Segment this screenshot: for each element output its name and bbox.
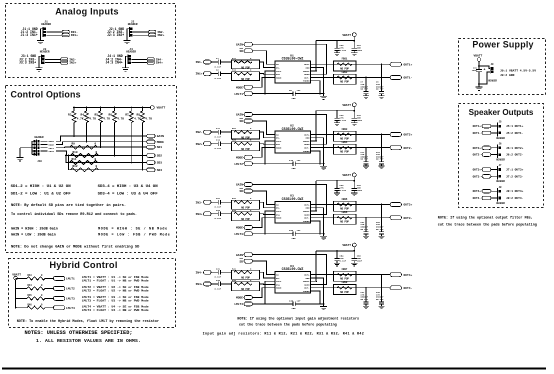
svg-text:OUT-: OUT- <box>304 76 309 79</box>
ground under C37 <box>363 306 369 309</box>
svg-text:IN+: IN+ <box>276 213 281 216</box>
svg-text:NO POP: NO POP <box>340 137 349 140</box>
svg-text:NO POP: NO POP <box>361 158 369 161</box>
svg-text:0.1uF: 0.1uF <box>215 77 222 80</box>
resistor R22 0 (NO POP box) <box>232 142 260 151</box>
svg-text:MODE: MODE <box>276 217 282 220</box>
ground under C54 <box>334 263 340 266</box>
svg-text:THERM: THERM <box>303 290 310 293</box>
svg-text:IN1+: IN1+ <box>71 34 78 37</box>
resistor R21 0 (NO POP box) <box>232 130 260 139</box>
wire R6 to SD2 net <box>114 123 116 156</box>
resistor R11 0 (NO POP box) <box>232 60 260 69</box>
svg-text:GND: GND <box>306 67 311 70</box>
svg-text:LMLT: LMLT <box>276 70 282 73</box>
wire C5 to ground <box>295 93 323 95</box>
svg-text:4.7K: 4.7K <box>103 118 110 121</box>
wire IN1- to C1 <box>211 61 218 63</box>
ground at J2 <box>123 40 130 43</box>
resistor R43 0 ohm <box>27 277 45 280</box>
wire SD2 to R12 branch <box>69 156 71 170</box>
svg-text:R21: R21 <box>232 127 237 130</box>
svg-text:SD3: SD3 <box>157 162 163 165</box>
ferrite bead FB on IN4+ <box>147 61 154 64</box>
svg-text:R7: R7 <box>125 114 129 117</box>
svg-text:VBATT: VBATT <box>342 34 351 37</box>
svg-text:Control Options: Control Options <box>11 90 81 100</box>
capacitor C34 0.1uF (decoupling) <box>336 111 338 119</box>
svg-text:cut the trace between the pads: cut the trace between the pads before po… <box>438 223 537 228</box>
wire R12 to U1 IN+ <box>260 73 269 76</box>
wire J4 pin3 to bead <box>132 62 147 64</box>
svg-text:R4: R4 <box>81 114 85 117</box>
svg-text:4.7K: 4.7K <box>145 118 152 121</box>
wire U1 GND pin down <box>317 68 324 94</box>
wire C15 to ground <box>295 163 323 165</box>
svg-text:HEADER: HEADER <box>34 136 44 139</box>
svg-text:IN-: IN- <box>276 137 280 140</box>
svg-text:R8: R8 <box>137 114 141 117</box>
svg-text:OUT2-: OUT2- <box>473 154 482 157</box>
svg-text:0.1uF: 0.1uF <box>215 206 222 209</box>
svg-text:10uF: 10uF <box>357 119 363 122</box>
ground at J10 <box>16 158 23 161</box>
svg-text:LMLT: LMLT <box>276 280 282 283</box>
wire J4 pin2 to bead <box>132 58 147 60</box>
wire IN2- to C11 <box>211 131 218 133</box>
wire IN4- to C31 <box>211 271 218 273</box>
svg-text:LMLT: LMLT <box>276 140 282 143</box>
connector J10 header <box>36 140 38 157</box>
svg-text:LMLT2 = FLOAT : U2 -> NB or PW: LMLT2 = FLOAT : U2 -> NB or PWD Mode <box>82 289 149 293</box>
svg-text:IN3-: IN3- <box>196 201 203 204</box>
ground under C18 <box>379 166 385 169</box>
svg-text:0.1uF: 0.1uF <box>340 119 347 122</box>
svg-text:NOTE: If using the optional ou: NOTE: If using the optional output filte… <box>438 215 533 220</box>
ground under U3 <box>323 234 325 237</box>
svg-text:NO POP: NO POP <box>361 298 369 301</box>
svg-text:NO POP: NO POP <box>340 291 349 294</box>
svg-text:cut the trace between the pads: cut the trace between the pads before po… <box>239 322 337 327</box>
wire SD to U2 pin 1 <box>253 121 269 134</box>
svg-text:OUT3+: OUT3+ <box>473 169 482 172</box>
svg-text:0.1uF: 0.1uF <box>215 65 222 68</box>
resistor R41 0 (NO POP box) <box>232 270 260 279</box>
wire OUT1+ line <box>311 63 391 65</box>
capacitor C53 10uF (decoupling) <box>353 251 355 259</box>
capacitor C23 10uF (decoupling) <box>353 41 355 49</box>
svg-text:Analog Inputs: Analog Inputs <box>55 7 119 17</box>
svg-text:R12: R12 <box>232 69 237 72</box>
wire SD to U1 pin 1 <box>253 51 269 65</box>
wire MODE to U3 <box>253 218 269 228</box>
svg-text:HEADER: HEADER <box>496 137 505 140</box>
resistor R4 4.7K pull-up <box>86 107 88 109</box>
svg-text:NOTE: Do not change GAIN or MO: NOTE: Do not change GAIN or MODE without… <box>11 245 140 250</box>
svg-text:IN3-: IN3- <box>69 58 76 61</box>
svg-text:GAIN: GAIN <box>236 44 243 47</box>
junction R7/SD3 <box>130 162 132 164</box>
ground under U1 <box>323 94 325 97</box>
svg-text:OUT3-: OUT3- <box>404 217 413 220</box>
wire to J5 <box>491 125 498 127</box>
svg-text:IN-: IN- <box>276 277 280 280</box>
svg-text:VBATT: VBATT <box>342 244 351 247</box>
svg-text:NO POP: NO POP <box>241 148 250 151</box>
svg-text:FB05: FB05 <box>342 198 348 201</box>
capacitor C22 0.1uF <box>218 212 220 217</box>
svg-text:HEADER: HEADER <box>496 202 505 205</box>
wire to J7 <box>491 169 498 171</box>
svg-text:J7:1 OUT3+: J7:1 OUT3+ <box>506 169 524 172</box>
svg-text:OUT2+: OUT2+ <box>473 147 482 150</box>
svg-text:NOTE: By default SD pins are t: NOTE: By default SD pins are tied togeth… <box>11 203 126 208</box>
svg-text:OUT2+: OUT2+ <box>404 134 413 137</box>
svg-text:IN+: IN+ <box>276 283 281 286</box>
capacitor C18 6800pF (out filter) <box>381 134 383 161</box>
svg-text:GND: GND <box>306 137 311 140</box>
resistor R7 4.7K pull-up <box>130 107 132 109</box>
svg-text:SD1-2 = HIGH : U1 & U2 ON: SD1-2 = HIGH : U1 & U2 ON <box>11 185 72 189</box>
ground under C53 <box>351 263 357 266</box>
wire net GAIN <box>62 135 147 137</box>
svg-text:IN4-: IN4- <box>156 58 163 61</box>
svg-text:OUT3-: OUT3- <box>473 175 482 178</box>
svg-text:NO POP: NO POP <box>241 207 250 210</box>
svg-text:X5R: X5R <box>292 167 297 170</box>
svg-text:IN1-: IN1- <box>71 31 78 34</box>
net label SD4 <box>147 168 155 172</box>
net label OUT1- <box>390 76 402 80</box>
svg-text:HEADER: HEADER <box>496 180 505 183</box>
net label OUT3+ <box>390 203 402 207</box>
net label OUT4- <box>390 286 402 290</box>
svg-text:R31: R31 <box>232 197 237 200</box>
svg-text:HEADER: HEADER <box>40 51 50 54</box>
svg-text:NO POP: NO POP <box>376 88 384 91</box>
svg-text:1. ALL RESISTOR VALUES ARE IN: 1. ALL RESISTOR VALUES ARE IN OHMS. <box>36 338 141 344</box>
ground under C33 <box>351 123 357 126</box>
svg-text:R10: R10 <box>73 151 78 154</box>
svg-text:OUT-: OUT- <box>304 217 309 220</box>
capacitor C7 6800pF (out filter) <box>365 78 367 92</box>
svg-text:LMLT3: LMLT3 <box>234 233 243 236</box>
ferrite bead FB on IN2+ <box>149 34 156 37</box>
svg-text:NO POP: NO POP <box>340 278 349 281</box>
capacitor C43 10uF (decoupling) <box>353 181 355 189</box>
wire branch LMLT2 <box>16 287 27 289</box>
svg-text:0.1uF: 0.1uF <box>340 49 347 52</box>
svg-text:VBATT: VBATT <box>303 140 310 143</box>
resistor R42 0 (NO POP box) <box>232 282 260 291</box>
junction R8/SD4 <box>142 169 144 171</box>
svg-text:FB04: FB04 <box>342 141 348 144</box>
wire C25 to ground <box>295 233 323 235</box>
svg-text:VBATT: VBATT <box>474 55 483 58</box>
svg-text:GAIN: GAIN <box>157 135 164 138</box>
capacitor C44 0.1uF (decoupling) <box>336 181 338 189</box>
svg-text:J8:2 OUT4-: J8:2 OUT4- <box>506 197 524 200</box>
wire J2 pin1 to ground <box>127 29 129 41</box>
svg-text:GND: GND <box>306 207 311 210</box>
wire IN4+ to C32 <box>211 283 218 285</box>
svg-text:GAIN: GAIN <box>304 73 310 76</box>
svg-text:IN+: IN+ <box>276 73 281 76</box>
svg-text:THERM: THERM <box>303 220 310 223</box>
net label OUT2- <box>390 146 402 150</box>
svg-text:IN-: IN- <box>276 207 280 210</box>
svg-text:HEADER: HEADER <box>41 23 51 26</box>
ferrite bead FB06 (NO POP) <box>334 214 357 224</box>
wire SD to U4 pin 1 <box>253 261 269 275</box>
svg-text:GAIN: GAIN <box>236 254 243 257</box>
svg-text:J2:3 IN2+: J2:3 IN2+ <box>107 33 124 37</box>
wire C1 to RR11 <box>221 61 232 63</box>
svg-text:NO POP: NO POP <box>340 67 349 70</box>
svg-text:FB03: FB03 <box>342 128 348 131</box>
svg-text:IN2+: IN2+ <box>157 34 164 37</box>
svg-text:HEADER: HEADER <box>488 80 497 83</box>
capacitor C21 0.1uF <box>218 200 220 205</box>
section box: Control Options <box>6 86 177 253</box>
svg-text:NO POP: NO POP <box>241 66 250 69</box>
wire IN1+ to C2 <box>211 73 218 75</box>
svg-text:NO POP: NO POP <box>376 228 384 231</box>
svg-text:R6: R6 <box>109 114 113 117</box>
svg-text:LMLT3: LMLT3 <box>66 298 75 301</box>
wire to J8 <box>491 190 498 192</box>
svg-text:OUT+: OUT+ <box>304 274 310 277</box>
wire R45 to LMLT3 <box>45 297 53 299</box>
svg-text:MODE: MODE <box>236 297 243 300</box>
wire GAIN to U4 pin <box>253 255 327 285</box>
wire R46 to LMLT4 <box>45 307 53 309</box>
svg-text:4.7K: 4.7K <box>89 118 96 121</box>
svg-text:4.7K: 4.7K <box>134 118 141 121</box>
svg-text:0.1uF: 0.1uF <box>340 189 347 192</box>
wire U4 THERM pad down <box>317 291 320 304</box>
resistor R5 4.7K pull-up <box>100 107 102 109</box>
net label OUT3- <box>390 216 402 220</box>
svg-text:MODE: MODE <box>236 86 243 89</box>
wire C31 to RR41 <box>221 271 232 273</box>
svg-text:IN2-: IN2- <box>196 131 203 134</box>
svg-text:J6:2 OUT2-: J6:2 OUT2- <box>506 154 524 157</box>
wire C32 to RR42 <box>221 283 232 285</box>
wire R8 to SD4 net <box>142 123 144 170</box>
wire MODE to U4 <box>253 288 269 298</box>
svg-text:LMLT2: LMLT2 <box>66 288 75 291</box>
svg-text:NO POP: NO POP <box>241 277 250 280</box>
wire J2 pin2 to bead <box>133 31 148 33</box>
svg-text:OUT+: OUT+ <box>304 203 310 206</box>
junction R5/SD1 <box>100 146 102 148</box>
wire R31 to U3 IN- <box>260 202 269 208</box>
svg-text:LMLT1: LMLT1 <box>234 93 243 96</box>
svg-text:C35: C35 <box>289 299 294 302</box>
wire GAIN to U3 pin <box>253 185 327 215</box>
wire IN3+ to C22 <box>211 213 218 215</box>
resistor R44 0 ohm <box>27 287 45 290</box>
svg-text:1uF: 1uF <box>297 299 302 302</box>
svg-text:1uF: 1uF <box>297 89 302 92</box>
svg-text:IN2-: IN2- <box>157 31 164 34</box>
wire VBATT to C61 and J9 <box>478 61 480 66</box>
svg-text:LMLT: LMLT <box>276 210 282 213</box>
wire LMLT4 to U4 and bypass line <box>253 303 294 305</box>
svg-text:NO POP: NO POP <box>241 78 250 81</box>
resistor R8 4.7K pull-up <box>142 107 144 109</box>
svg-text:CS35L00-CWZ: CS35L00-CWZ <box>282 127 304 131</box>
wire VBATT rail (U2) <box>353 107 355 111</box>
svg-text:GAIN: GAIN <box>304 143 310 146</box>
svg-text:R11: R11 <box>232 57 237 60</box>
wire C35 to ground <box>295 303 323 305</box>
svg-text:IN4+: IN4+ <box>196 283 203 286</box>
ground under C38 <box>379 306 385 309</box>
ferrite bead FB02 (NO POP) <box>334 74 357 84</box>
svg-text:NO POP: NO POP <box>241 218 250 221</box>
ground under C24 <box>334 53 340 56</box>
ground under C34 <box>334 123 340 126</box>
svg-text:FB02: FB02 <box>342 71 348 74</box>
net label SD2 <box>147 154 155 158</box>
wire J3 pin1 to ground <box>39 56 41 68</box>
net label MODE <box>147 140 155 144</box>
svg-text:R46: R46 <box>28 303 33 306</box>
svg-text:OUT1-: OUT1- <box>473 132 482 135</box>
ferrite bead FB on IN3+ <box>61 61 68 64</box>
ground under C28 <box>379 236 385 239</box>
svg-text:R11: R11 <box>72 158 77 161</box>
svg-text:GND: GND <box>306 277 311 280</box>
svg-text:J5:2 OUT1-: J5:2 OUT1- <box>506 132 524 135</box>
svg-text:GAIN: GAIN <box>304 283 310 286</box>
svg-text:R22: R22 <box>232 139 237 142</box>
svg-text:OUT1-: OUT1- <box>404 77 413 80</box>
svg-text:C21: C21 <box>216 197 221 200</box>
wire LMLT1 to U1 and bypass line <box>253 93 294 95</box>
svg-text:R12: R12 <box>73 165 78 168</box>
svg-text:SD1: SD1 <box>157 146 163 149</box>
capacitor C54 0.1uF (decoupling) <box>336 251 338 259</box>
resistor R3 4.7K pull-up <box>73 107 75 109</box>
wire J10 pins to ground (left side) <box>32 140 37 142</box>
svg-text:THERM: THERM <box>303 150 310 153</box>
svg-text:OUT+: OUT+ <box>304 133 310 136</box>
svg-text:Speaker Outputs: Speaker Outputs <box>469 108 534 117</box>
wire OUT4+ line <box>311 274 391 276</box>
wire IN3- to C21 <box>211 201 218 203</box>
svg-text:R32: R32 <box>232 209 237 212</box>
svg-text:IN4+: IN4+ <box>156 62 163 65</box>
svg-text:R3: R3 <box>68 114 72 117</box>
wire MODE to U2 <box>253 148 269 158</box>
wire R11 to U1 IN- <box>260 62 269 68</box>
wire SD to U3 pin 1 <box>253 191 269 205</box>
wire R7 to SD3 net <box>130 123 132 163</box>
wire J3 pin3 to bead <box>45 62 60 64</box>
wire C12 to RR22 <box>221 143 232 145</box>
net label LMLT1 <box>53 276 65 280</box>
ferrite bead FB on IN4- <box>147 58 154 61</box>
svg-text:NO POP: NO POP <box>340 208 349 211</box>
net label GAIN <box>147 134 155 138</box>
svg-text:0.1uF: 0.1uF <box>215 147 222 150</box>
svg-text:Hybrid Control: Hybrid Control <box>49 260 117 270</box>
svg-text:LMLT2: LMLT2 <box>234 163 243 166</box>
svg-text:J6:1 OUT2+: J6:1 OUT2+ <box>506 147 524 150</box>
svg-text:MODE: MODE <box>236 227 243 230</box>
svg-text:R41: R41 <box>232 267 237 270</box>
ground under C43 <box>351 193 357 196</box>
connector J1 header <box>42 27 44 37</box>
svg-text:X5R: X5R <box>292 237 297 240</box>
capacitor C38 6800pF (out filter) <box>381 275 383 302</box>
section box: Hybrid Control <box>9 259 176 328</box>
svg-text:X5R: X5R <box>292 307 297 310</box>
svg-text:NO POP: NO POP <box>340 221 349 224</box>
wire R32 to U3 IN+ <box>260 213 269 216</box>
svg-text:4.7K: 4.7K <box>77 118 84 121</box>
wire R42 to U4 IN+ <box>260 283 269 286</box>
capacitor C31 0.1uF <box>218 270 220 275</box>
wire OUT1- line <box>311 77 391 79</box>
wire R5 to SD1 net <box>100 123 102 148</box>
wire C11 to RR21 <box>221 131 232 133</box>
svg-text:J10: J10 <box>37 160 42 163</box>
svg-text:SD1-2 = LOW : U1 & U2 OFF: SD1-2 = LOW : U1 & U2 OFF <box>11 193 72 197</box>
svg-text:NO POP: NO POP <box>340 151 349 154</box>
wire net SD4 <box>71 169 147 171</box>
svg-text:0.1uF: 0.1uF <box>215 276 222 279</box>
ferrite bead FB08 (NO POP) <box>334 285 357 295</box>
wire branch LMLT4 <box>16 307 27 309</box>
ferrite bead FB on IN2- <box>149 30 156 33</box>
svg-text:MODE: MODE <box>276 287 282 290</box>
svg-text:LMLT4 = FLOAT : U4 -> NB or PW: LMLT4 = FLOAT : U4 -> NB or PWD Mode <box>82 308 149 312</box>
svg-text:MODE: MODE <box>49 144 55 147</box>
svg-text:NO POP: NO POP <box>340 81 349 84</box>
capacitor C32 0.1uF <box>218 282 220 287</box>
wire VBATT rail (U3) <box>353 177 355 181</box>
wire VBATT rail (U4) <box>353 247 355 251</box>
net label OUT4+ <box>390 273 402 277</box>
svg-text:OUT4+: OUT4+ <box>473 190 482 193</box>
svg-text:SD34: SD34 <box>49 150 55 153</box>
svg-text:J9:1 VBATT 4.5V-5.5V: J9:1 VBATT 4.5V-5.5V <box>500 70 536 73</box>
svg-text:J9:2 GND: J9:2 GND <box>500 74 515 77</box>
svg-text:R43: R43 <box>28 274 33 277</box>
capacitor C15 1uF (bypass) <box>293 161 295 166</box>
svg-text:+: + <box>484 68 486 72</box>
svg-text:MODE: MODE <box>276 147 282 150</box>
ground at J1 <box>37 40 44 43</box>
wire VBATT trunk (hybrid) <box>15 280 17 308</box>
op-amp U3 body <box>275 201 311 223</box>
resistor R32 0 (NO POP box) <box>232 212 260 221</box>
svg-text:10uF: 10uF <box>472 69 478 72</box>
svg-text:SD12: SD12 <box>49 147 55 150</box>
svg-text:10uF: 10uF <box>357 189 363 192</box>
resistor R11 0 ohm on SD3 <box>70 161 98 165</box>
svg-text:R45: R45 <box>28 294 33 297</box>
resistor R46 0 ohm <box>27 306 45 309</box>
svg-text:C22: C22 <box>216 209 221 212</box>
svg-text:J5:1 OUT1+: J5:1 OUT1+ <box>506 125 524 128</box>
capacitor C17 6800pF (out filter) <box>365 148 367 162</box>
connector J3 header <box>40 55 42 65</box>
